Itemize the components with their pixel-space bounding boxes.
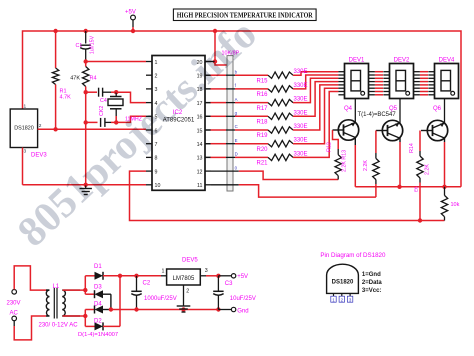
svg-text:10k: 10k <box>451 202 460 208</box>
svg-text:13: 13 <box>197 156 203 162</box>
svg-text:10: 10 <box>155 183 161 189</box>
svg-text:Q6: Q6 <box>433 106 442 112</box>
svg-text:330E: 330E <box>294 83 308 89</box>
svg-text:16: 16 <box>197 115 203 121</box>
svg-text:330E: 330E <box>294 151 308 157</box>
svg-text:DEV2: DEV2 <box>394 57 410 63</box>
svg-text:1uf/15V: 1uf/15V <box>90 35 96 54</box>
svg-text:3=Vcc:: 3=Vcc: <box>362 288 382 294</box>
svg-text:E: E <box>235 138 238 143</box>
svg-text:DEV5: DEV5 <box>182 257 198 263</box>
svg-text:1=Gnd: 1=Gnd <box>362 272 381 278</box>
svg-text:10uF/25V: 10uF/25V <box>230 296 256 302</box>
svg-text:C2: C2 <box>143 281 151 287</box>
svg-text:Pin Diagram of DS1820: Pin Diagram of DS1820 <box>320 252 386 259</box>
svg-text:14: 14 <box>197 142 203 148</box>
svg-text:330E: 330E <box>294 138 308 144</box>
svg-text:A: A <box>235 97 238 102</box>
svg-text:R17: R17 <box>257 106 269 112</box>
svg-text:C: C <box>235 124 238 129</box>
svg-text:2.2K: 2.2K <box>363 160 369 171</box>
svg-text:330E: 330E <box>294 97 308 103</box>
svg-text:E6: E6 <box>413 186 418 192</box>
svg-text:2: 2 <box>155 74 158 80</box>
svg-text:1: 1 <box>155 60 158 66</box>
svg-text:R12: R12 <box>326 142 332 152</box>
svg-text:47K: 47K <box>70 76 80 82</box>
svg-text:T(1-4)=BC547: T(1-4)=BC547 <box>358 112 397 118</box>
svg-text:R19: R19 <box>257 133 269 139</box>
svg-text:230/ 0-12V AC: 230/ 0-12V AC <box>39 323 79 329</box>
svg-text:2: 2 <box>39 123 42 129</box>
svg-text:AC: AC <box>10 311 19 317</box>
svg-text:R15: R15 <box>257 78 269 84</box>
svg-text:LM7805: LM7805 <box>173 276 195 282</box>
svg-text:4.7K: 4.7K <box>60 95 72 101</box>
svg-text:Q4: Q4 <box>344 106 353 112</box>
svg-text:DS1820: DS1820 <box>14 126 33 132</box>
svg-text:11: 11 <box>197 183 203 189</box>
svg-text:D3: D3 <box>94 284 102 290</box>
svg-text:D(1-4)=1N4007: D(1-4)=1N4007 <box>78 332 118 338</box>
svg-text:2.2K R13: 2.2K R13 <box>341 150 347 172</box>
svg-text:1000uF/25V: 1000uF/25V <box>144 296 177 302</box>
svg-text:Gnd: Gnd <box>237 308 248 314</box>
svg-text:8: 8 <box>155 156 158 162</box>
svg-text:12: 12 <box>197 169 203 175</box>
svg-text:HIGH PRECISION TEMPERATURE IND: HIGH PRECISION TEMPERATURE INDICATOR <box>177 11 314 20</box>
svg-text:330E: 330E <box>294 110 308 116</box>
svg-text:D1: D1 <box>94 264 102 270</box>
svg-text:2=Data: 2=Data <box>362 280 383 286</box>
svg-text:R21: R21 <box>257 161 269 167</box>
svg-text:R4: R4 <box>90 76 97 82</box>
svg-text:CK2: CK2 <box>99 106 105 116</box>
svg-text:DEV3: DEV3 <box>31 153 47 159</box>
svg-text:R18: R18 <box>257 120 269 126</box>
svg-text:DEV4: DEV4 <box>439 57 455 63</box>
svg-text:C4: C4 <box>100 98 107 104</box>
svg-text:330E: 330E <box>294 124 308 130</box>
svg-text:230V: 230V <box>7 301 21 307</box>
svg-text:3: 3 <box>205 268 208 274</box>
svg-text:C3: C3 <box>225 281 233 287</box>
svg-text:D4: D4 <box>94 302 102 308</box>
svg-text:1: 1 <box>162 268 165 274</box>
svg-text:L1: L1 <box>53 284 60 290</box>
svg-text:R14: R14 <box>409 143 415 153</box>
svg-text:D: D <box>235 152 238 157</box>
svg-text:9: 9 <box>155 169 158 175</box>
svg-text:D2: D2 <box>94 318 102 324</box>
svg-text:R20: R20 <box>257 147 269 153</box>
svg-text:Q5: Q5 <box>389 106 398 112</box>
svg-text:DEV1: DEV1 <box>349 57 365 63</box>
svg-text:2: 2 <box>186 289 189 295</box>
svg-text:15: 15 <box>197 128 203 134</box>
svg-text:3: 3 <box>24 149 27 155</box>
svg-text:2.2K: 2.2K <box>425 164 431 175</box>
svg-text:+5V: +5V <box>237 274 248 280</box>
svg-text:DS1820: DS1820 <box>332 280 354 286</box>
svg-text:C1: C1 <box>76 43 83 49</box>
svg-text:+5V: +5V <box>125 10 136 16</box>
svg-text:R16: R16 <box>257 92 269 98</box>
svg-text:1: 1 <box>24 104 27 110</box>
